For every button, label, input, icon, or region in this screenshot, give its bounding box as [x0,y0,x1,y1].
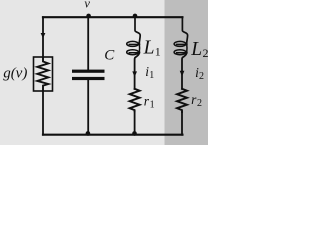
node r1 bottom dot [132,131,137,136]
inductor L2 loop connector [186,44,188,52]
current arrow i1 [132,71,137,77]
wire left branch lower [42,91,44,135]
wire L1 to r1 [135,52,140,89]
wire top rail [43,16,182,18]
svg-text:v: v [84,0,90,11]
wire capacitor branch upper [87,17,89,69]
inductor L1 lead and hook [135,17,140,43]
capacitor C top plate [72,70,105,73]
svg-text:2: 2 [197,98,202,109]
resistor g(v) box [34,57,53,91]
wire r1 to bottom rail [134,111,136,134]
svg-text:1: 1 [149,70,154,81]
inductor L1 loop 2 [127,50,139,55]
svg-text:2: 2 [203,46,209,60]
svg-text:C: C [104,48,115,64]
inductor L1 loop 1 [127,41,139,46]
wire left branch upper [42,17,44,57]
current arrow into g(v) [41,33,46,38]
page background [0,0,208,145]
inductor L1 loop connector [138,44,140,52]
resistor r1 zigzag [130,89,140,112]
svg-text:2: 2 [199,71,204,82]
node capacitor bottom dot [86,131,91,136]
inductor L2 loop 1 [174,41,186,46]
node v dot [86,14,91,19]
inductor L2 loop 2 [174,50,186,55]
current arrow i2 [180,71,185,77]
svg-text:L: L [143,38,155,59]
svg-text:1: 1 [150,100,155,111]
svg-text:L: L [190,39,202,60]
svg-text:1: 1 [155,45,161,59]
inductor L2 lead and hook [182,17,187,43]
svg-text:g(v): g(v) [3,66,27,82]
resistor r2 zigzag [177,89,187,112]
wire capacitor branch lower [87,80,89,135]
capacitor C bottom plate [72,77,105,80]
wire bottom rail [43,134,182,136]
node L1 top dot [133,14,138,19]
resistor g(v) zigzag [37,58,48,90]
wire L2 to r2 [182,52,187,89]
shaded margin band [165,0,209,145]
wire r2 to bottom rail [181,112,183,135]
